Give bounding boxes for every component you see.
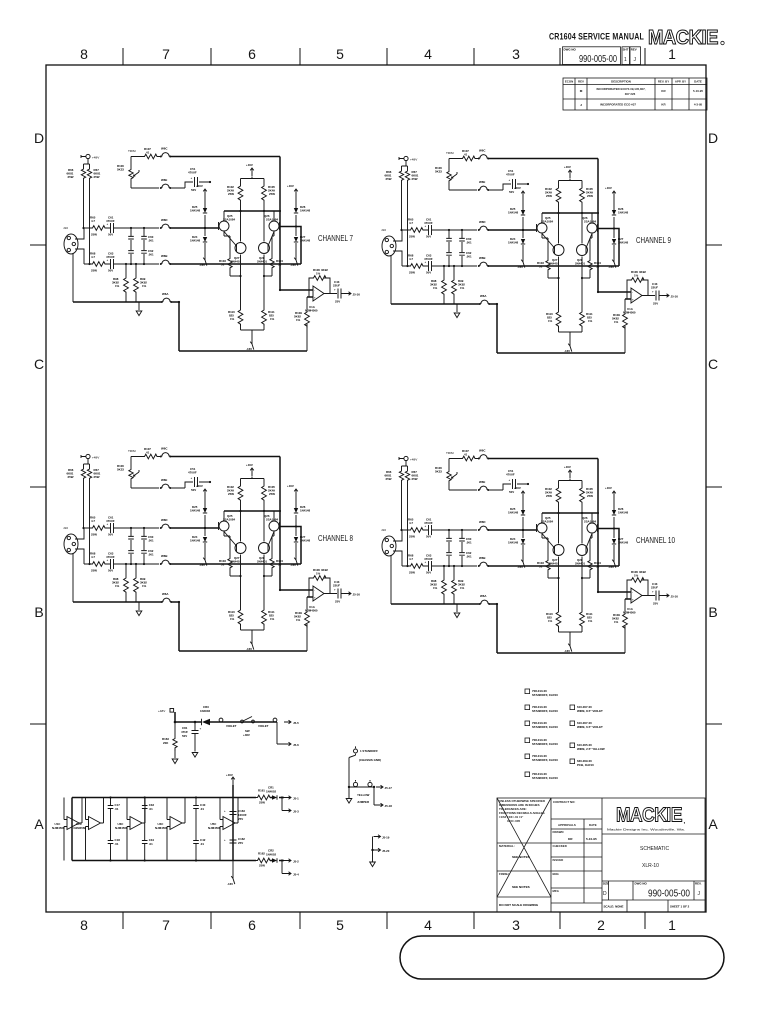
svg-text:6: 6 bbox=[248, 46, 256, 62]
svg-text:APP. BY: APP. BY bbox=[675, 80, 686, 84]
svg-text:1 STANDOFF: 1 STANDOFF bbox=[360, 749, 378, 753]
svg-text:.01: .01 bbox=[115, 807, 119, 811]
svg-text:APPROVALS: APPROVALS bbox=[558, 823, 576, 827]
svg-text:INCORPORATED ECO #37: INCORPORATED ECO #37 bbox=[600, 103, 636, 107]
svg-text:MACKIE: MACKIE bbox=[616, 805, 682, 827]
svg-text:1N4002: 1N4002 bbox=[200, 709, 211, 713]
svg-text:+: + bbox=[224, 809, 226, 813]
svg-text:M: M bbox=[580, 89, 583, 93]
svg-text:25W: 25W bbox=[259, 801, 265, 805]
svg-text:1: 1 bbox=[624, 57, 627, 63]
svg-text:MACKIE: MACKIE bbox=[648, 27, 718, 49]
svg-text:J: J bbox=[580, 103, 582, 107]
svg-text:5-10-95: 5-10-95 bbox=[586, 837, 597, 841]
svg-text:J5-5: J5-5 bbox=[293, 721, 299, 725]
svg-text:DWG NO: DWG NO bbox=[564, 48, 577, 52]
svg-text:C: C bbox=[34, 356, 44, 372]
svg-text:REV: REV bbox=[578, 80, 584, 84]
svg-text:C: C bbox=[708, 356, 718, 372]
svg-text:1: 1 bbox=[668, 917, 676, 933]
svg-text:J5-17: J5-17 bbox=[385, 786, 393, 790]
svg-text:4-3-95: 4-3-95 bbox=[694, 103, 703, 107]
svg-text:STANDOFF, XLR10: STANDOFF, XLR10 bbox=[532, 693, 558, 697]
svg-text:KR: KR bbox=[661, 89, 666, 93]
svg-text:+: + bbox=[200, 727, 202, 731]
svg-text:+: + bbox=[224, 838, 226, 842]
svg-text:J: J bbox=[634, 57, 637, 63]
svg-text:DWG NO: DWG NO bbox=[635, 882, 648, 886]
svg-text:3: 3 bbox=[512, 46, 520, 62]
svg-text:J5-1: J5-1 bbox=[293, 797, 299, 801]
svg-text:7: 7 bbox=[162, 46, 170, 62]
svg-text:NJM4560: NJM4560 bbox=[155, 826, 168, 830]
svg-text:INCORPORATED ECO'S #9,145,307: INCORPORATED ECO'S #9,145,307, bbox=[597, 87, 646, 91]
svg-text:CR1604 SERVICE MANUAL: CR1604 SERVICE MANUAL bbox=[549, 32, 644, 42]
svg-text:MATERIAL:: MATERIAL: bbox=[499, 844, 515, 848]
svg-text:+48V: +48V bbox=[158, 709, 166, 713]
svg-text:.01: .01 bbox=[115, 842, 119, 846]
svg-text:25V: 25V bbox=[238, 817, 243, 821]
svg-text:.01: .01 bbox=[200, 807, 204, 811]
svg-text:J5-18: J5-18 bbox=[385, 804, 393, 808]
svg-text:MFG: MFG bbox=[553, 889, 560, 893]
svg-text:990-005-00: 990-005-00 bbox=[648, 889, 690, 900]
svg-text:307 #26: 307 #26 bbox=[625, 92, 636, 96]
svg-text:J5-2: J5-2 bbox=[293, 860, 299, 864]
svg-text:B: B bbox=[708, 604, 717, 620]
svg-text:CHANNEL 7: CHANNEL 7 bbox=[318, 234, 353, 243]
svg-text:B: B bbox=[34, 604, 43, 620]
svg-text:YELLOW: YELLOW bbox=[357, 793, 370, 797]
svg-text:D: D bbox=[603, 891, 607, 897]
svg-text:50V: 50V bbox=[182, 734, 187, 738]
svg-text:7: 7 bbox=[162, 917, 170, 933]
svg-text:STANDOFF, XLR10: STANDOFF, XLR10 bbox=[532, 742, 558, 746]
svg-text:DRAWN: DRAWN bbox=[553, 830, 564, 834]
svg-text:VIOLET: VIOLET bbox=[258, 724, 269, 728]
svg-text:8: 8 bbox=[80, 46, 88, 62]
svg-text:4: 4 bbox=[424, 46, 432, 62]
svg-text:2: 2 bbox=[597, 917, 605, 933]
svg-text:+48V: +48V bbox=[243, 733, 250, 737]
svg-text:-16V: -16V bbox=[227, 882, 233, 886]
svg-text:KR: KR bbox=[661, 103, 666, 107]
svg-text:4: 4 bbox=[424, 917, 432, 933]
svg-text:VIOLET: VIOLET bbox=[226, 724, 237, 728]
svg-text:REV: REV bbox=[631, 48, 637, 52]
svg-text:STANDOFF, XLR10: STANDOFF, XLR10 bbox=[532, 725, 558, 729]
svg-text:25W: 25W bbox=[259, 864, 265, 868]
svg-text:NJM4560: NJM4560 bbox=[115, 826, 128, 830]
svg-text:J5-6: J5-6 bbox=[293, 743, 299, 747]
svg-text:CHANNEL 10: CHANNEL 10 bbox=[636, 536, 676, 545]
svg-text:REV.: REV. bbox=[695, 882, 702, 886]
svg-text:XXX=.005: XXX=.005 bbox=[507, 819, 520, 823]
svg-text:3: 3 bbox=[512, 917, 520, 933]
svg-text:A: A bbox=[34, 816, 44, 832]
svg-text:J: J bbox=[698, 891, 701, 897]
svg-text:ECON: ECON bbox=[565, 80, 573, 84]
svg-text:990-005-00: 990-005-00 bbox=[579, 54, 617, 65]
svg-text:20K: 20K bbox=[163, 741, 169, 745]
svg-text:1N4002: 1N4002 bbox=[266, 853, 277, 857]
svg-text:SEE NOTES: SEE NOTES bbox=[512, 885, 530, 889]
svg-text:J5-20: J5-20 bbox=[382, 849, 390, 853]
svg-text:NJM4560: NJM4560 bbox=[52, 826, 65, 830]
svg-text:R161: R161 bbox=[258, 789, 265, 793]
svg-text:DATE: DATE bbox=[589, 823, 597, 827]
svg-text:PCB, XLR10: PCB, XLR10 bbox=[577, 763, 594, 767]
svg-text:5: 5 bbox=[336, 917, 344, 933]
svg-text:DATE: DATE bbox=[694, 80, 702, 84]
svg-text:SEE NOTES: SEE NOTES bbox=[512, 855, 530, 859]
svg-text:25V: 25V bbox=[238, 841, 243, 845]
svg-text:STANDOFF, XLR10: STANDOFF, XLR10 bbox=[532, 709, 558, 713]
svg-text:8: 8 bbox=[80, 917, 88, 933]
svg-text:JUMPER: JUMPER bbox=[357, 800, 370, 804]
svg-text:6: 6 bbox=[248, 917, 256, 933]
svg-text:KR: KR bbox=[568, 837, 573, 841]
svg-text:SIZE: SIZE bbox=[603, 882, 609, 886]
svg-text:CONTRACT NO:: CONTRACT NO: bbox=[553, 800, 575, 804]
svg-text:1N4002: 1N4002 bbox=[266, 790, 277, 794]
svg-text:FINISH:: FINISH: bbox=[499, 872, 509, 876]
svg-text:CHECKED: CHECKED bbox=[553, 844, 567, 848]
svg-text:WIRE, 6.5" VIOLET: WIRE, 6.5" VIOLET bbox=[577, 725, 603, 729]
svg-text:WIRE, 8.5" VIOLET: WIRE, 8.5" VIOLET bbox=[577, 709, 603, 713]
svg-text:STANDOFF, XLR10: STANDOFF, XLR10 bbox=[532, 758, 558, 762]
svg-text:DO NOT SCALE DRAWING: DO NOT SCALE DRAWING bbox=[499, 903, 539, 907]
svg-text:ISSUED: ISSUED bbox=[553, 858, 564, 862]
svg-text:Mackie Designs Inc. Woodinvi: Mackie Designs Inc. Woodinville, Wa. bbox=[607, 828, 685, 832]
svg-text:5-10-95: 5-10-95 bbox=[693, 89, 703, 93]
svg-text:NJM4560: NJM4560 bbox=[74, 826, 87, 830]
svg-text:STANDOFF, XLR10: STANDOFF, XLR10 bbox=[532, 776, 558, 780]
svg-text:SHT: SHT bbox=[623, 48, 629, 52]
svg-text:CHANNEL 9: CHANNEL 9 bbox=[636, 236, 671, 245]
svg-text:WIRE, 2.5" YELLOW: WIRE, 2.5" YELLOW bbox=[577, 747, 605, 751]
svg-text:J5-3: J5-3 bbox=[293, 810, 299, 814]
svg-text:D: D bbox=[708, 130, 718, 146]
svg-text:D: D bbox=[34, 130, 44, 146]
svg-text:DESCRIPTION: DESCRIPTION bbox=[611, 80, 631, 84]
svg-text:.01: .01 bbox=[149, 842, 153, 846]
svg-text:SCALE: NONE: SCALE: NONE bbox=[604, 905, 624, 909]
svg-text:5: 5 bbox=[336, 46, 344, 62]
svg-text:ENG: ENG bbox=[553, 872, 560, 876]
svg-text:SHEET 1 OF 2: SHEET 1 OF 2 bbox=[670, 905, 690, 909]
svg-text:XLR-10: XLR-10 bbox=[642, 863, 659, 869]
svg-text:J5-19: J5-19 bbox=[382, 836, 390, 840]
svg-text:,: , bbox=[684, 819, 686, 825]
svg-text:NJM4560: NJM4560 bbox=[208, 826, 221, 830]
svg-text:CHANNEL 8: CHANNEL 8 bbox=[318, 534, 353, 543]
svg-text:REV. BY: REV. BY bbox=[658, 80, 669, 84]
svg-text:A: A bbox=[708, 816, 718, 832]
svg-text:+16V: +16V bbox=[226, 773, 233, 777]
svg-text:.01: .01 bbox=[200, 842, 204, 846]
svg-text:(CHASSIS GND): (CHASSIS GND) bbox=[359, 758, 381, 762]
svg-text:R162: R162 bbox=[258, 852, 265, 856]
svg-text:SCHEMATIC: SCHEMATIC bbox=[640, 846, 669, 852]
svg-text:J5-4: J5-4 bbox=[293, 873, 299, 877]
svg-text:.01: .01 bbox=[149, 807, 153, 811]
